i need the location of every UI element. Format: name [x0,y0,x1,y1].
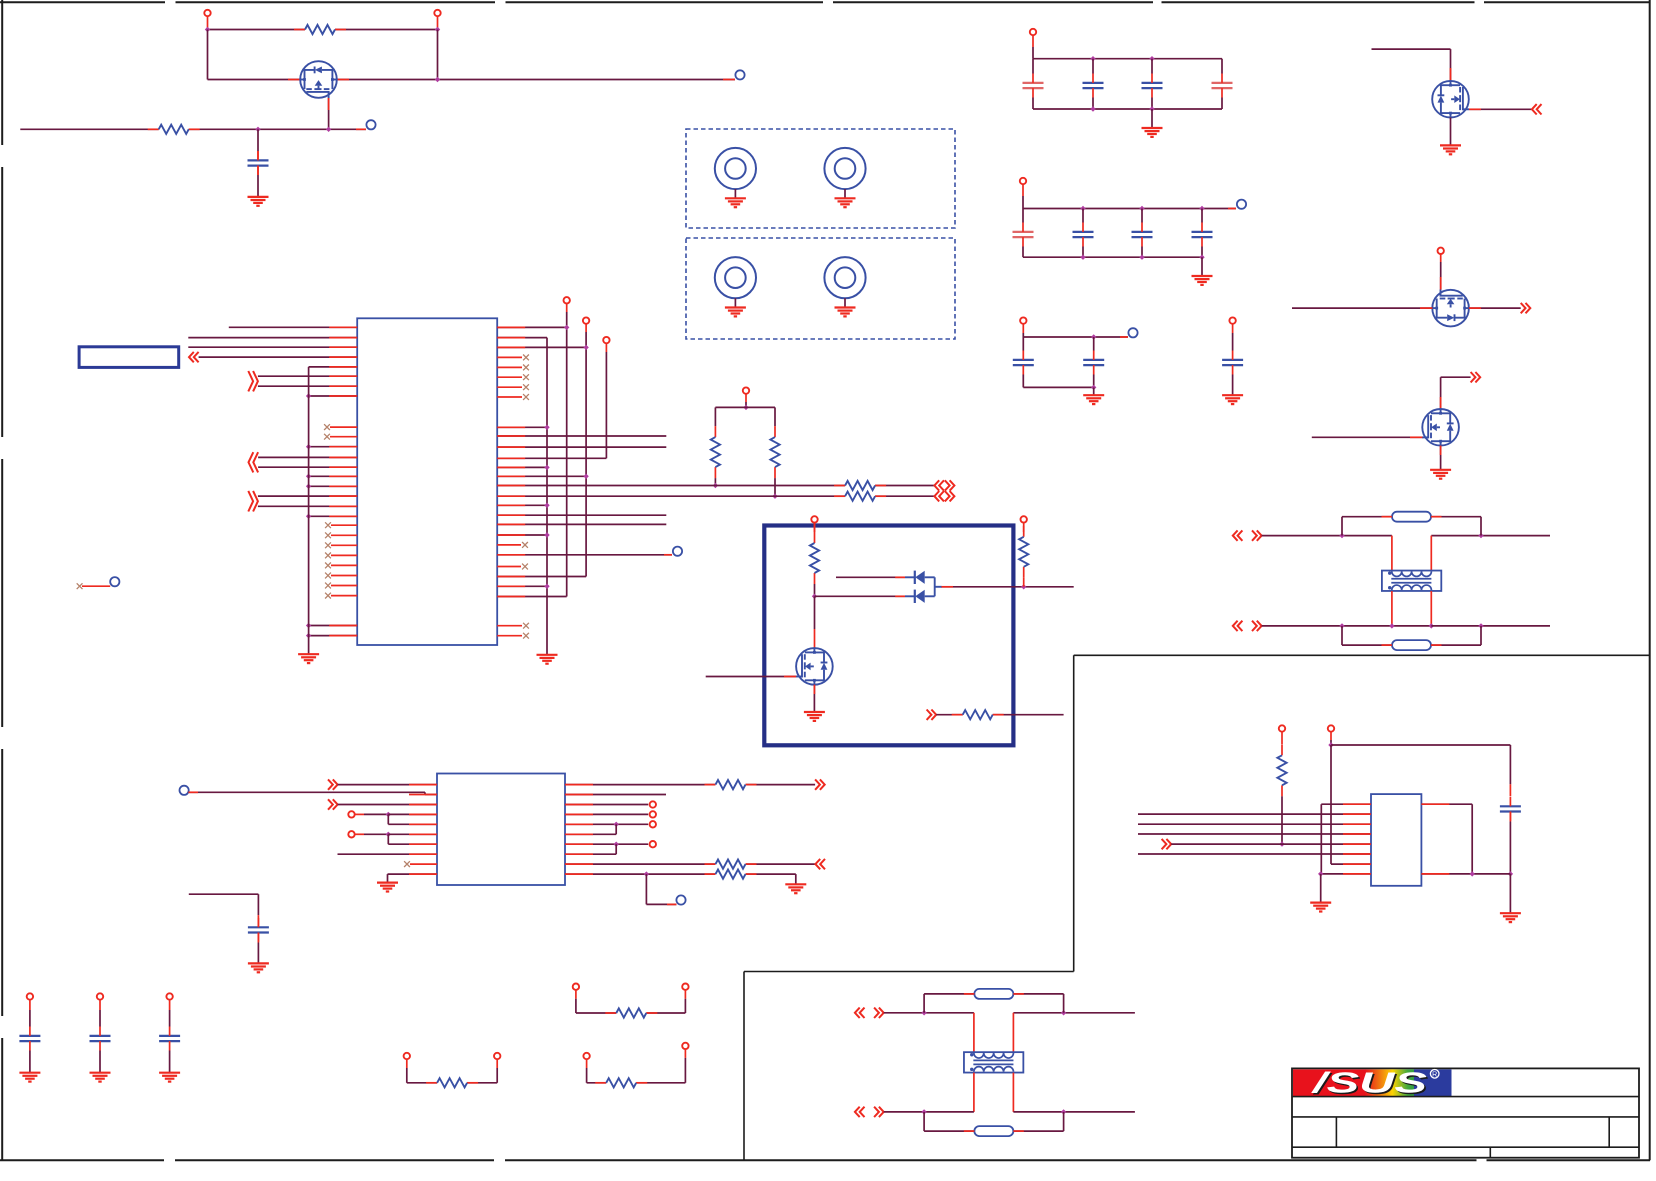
svg-text:R: R [1432,1072,1437,1079]
svg-text:/SUS: /SUS [1310,1068,1427,1100]
